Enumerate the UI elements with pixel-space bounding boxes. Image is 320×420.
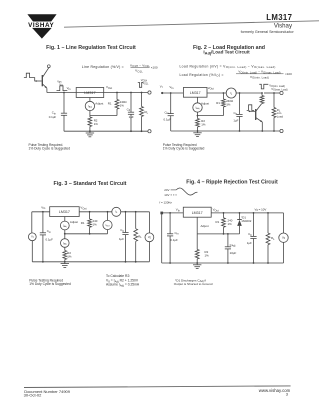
svg-text:1%: 1% <box>201 123 206 127</box>
svg-text:R1: R1 <box>108 101 112 105</box>
svg-text:1%: 1% <box>228 222 233 226</box>
svg-text:×100: ×100 <box>151 66 158 70</box>
svg-text:Fig. 4 – Ripple Rejection Test: Fig. 4 – Ripple Rejection Test Circuit <box>186 179 278 185</box>
svg-text:×100: ×100 <box>285 72 292 76</box>
svg-text:0.1µF: 0.1µF <box>46 238 54 242</box>
svg-text:Cin: Cin <box>47 229 52 234</box>
svg-text:Vishay: Vishay <box>274 23 293 30</box>
svg-text:IAdj: IAdj <box>63 225 67 228</box>
svg-text:Cin: Cin <box>175 231 180 236</box>
svg-text:Load Regulation (mV) = VO(min.: Load Regulation (mV) = VO(min. Load) − V… <box>180 65 276 70</box>
svg-text:RL: RL <box>271 236 275 241</box>
svg-text:VIn: VIn <box>169 85 174 90</box>
svg-text:RL: RL <box>138 234 142 239</box>
svg-text:IAdj: IAdj <box>196 106 200 109</box>
svg-text:VO1L: VO1L <box>135 69 143 74</box>
svg-text:1µF: 1µF <box>247 241 252 245</box>
svg-text:VOut: VOut <box>213 208 219 213</box>
svg-text:CAdj: CAdj <box>230 243 236 248</box>
svg-text:Cin: Cin <box>165 110 170 115</box>
svg-text:R1: R1 <box>215 220 219 224</box>
svg-text:IAdj: IAdj <box>63 242 67 245</box>
svg-text:f = 120Hz: f = 120Hz <box>159 200 172 204</box>
svg-text:1% Duty Cycle is Suggested: 1% Duty Cycle is Suggested <box>29 282 71 286</box>
svg-text:1µF: 1µF <box>119 237 124 241</box>
svg-text:LM317: LM317 <box>84 91 95 95</box>
svg-text:VIn: VIn <box>176 208 181 213</box>
svg-text:C0: C0 <box>120 228 124 233</box>
svg-text:1%: 1% <box>120 104 125 108</box>
svg-text:VO(max. Load): VO(max. Load) <box>271 87 287 92</box>
svg-text:VIn: VIn <box>67 86 72 91</box>
svg-text:Assume IAdj = 0.25mA: Assume IAdj = 0.25mA <box>106 283 140 288</box>
svg-text:VO(min. Load): VO(min. Load) <box>250 75 269 80</box>
svg-text:Load: Load <box>277 114 284 118</box>
svg-text:LM317: LM317 <box>190 91 201 95</box>
svg-text:VI: VI <box>160 84 163 89</box>
svg-text:1%: 1% <box>93 223 98 227</box>
svg-text:Adjust: Adjust <box>95 102 103 106</box>
svg-text:C0: C0 <box>233 111 237 116</box>
svg-text:1% Duty Cycle is Suggested: 1% Duty Cycle is Suggested <box>29 147 71 151</box>
svg-text:formerly General Semiconductor: formerly General Semiconductor <box>241 30 295 34</box>
svg-text:LM317: LM317 <box>192 211 203 215</box>
svg-text:1N4002: 1N4002 <box>241 219 252 223</box>
svg-text:Adjust: Adjust <box>70 220 78 224</box>
svg-text:VISHAY: VISHAY <box>28 22 54 29</box>
svg-text:V0 = 10V: V0 = 10V <box>255 207 267 212</box>
svg-text:LM317: LM317 <box>266 13 292 22</box>
svg-text:Fig. 1 – Line Regulation Test: Fig. 1 – Line Regulation Test Circuit <box>46 45 136 51</box>
svg-text:C0: C0 <box>127 108 131 113</box>
svg-text:R1: R1 <box>81 221 85 225</box>
svg-text:24V: 24V <box>164 188 169 192</box>
svg-text:1µF: 1µF <box>233 118 238 122</box>
svg-text:1% Duty Cycle is Suggested: 1% Duty Cycle is Suggested <box>163 147 205 151</box>
svg-text:IAdj: IAdj <box>88 105 92 108</box>
svg-text:14V: 14V <box>164 193 169 197</box>
svg-text:Adjust: Adjust <box>201 224 209 228</box>
svg-text:0.1µF: 0.1µF <box>164 118 172 122</box>
svg-text:C0: C0 <box>248 232 252 237</box>
svg-text:1%: 1% <box>94 122 99 126</box>
svg-text:To Calculate R2:: To Calculate R2: <box>106 274 130 278</box>
svg-text:1%: 1% <box>205 253 210 257</box>
svg-text:0.1µF: 0.1µF <box>49 115 57 119</box>
svg-text:0.1µF: 0.1µF <box>170 238 178 242</box>
svg-text:1%: 1% <box>226 103 231 107</box>
svg-text:IRef: IRef <box>106 225 110 227</box>
svg-text:Adjust: Adjust <box>201 102 209 106</box>
svg-text:Load Regulation (%/IO) =: Load Regulation (%/IO) = <box>180 73 224 78</box>
svg-text:1%: 1% <box>67 254 72 258</box>
svg-text:Line Regulation (%/V) =: Line Regulation (%/V) = <box>82 65 124 69</box>
svg-text:LM317: LM317 <box>59 210 70 214</box>
svg-text:R1: R1 <box>216 101 220 105</box>
svg-text:30-Oct-02: 30-Oct-02 <box>24 392 43 397</box>
svg-text:RL: RL <box>145 110 149 115</box>
svg-text:1µF: 1µF <box>129 115 134 119</box>
svg-text:10µF: 10µF <box>230 251 237 255</box>
svg-text:VOut: VOut <box>80 206 86 211</box>
svg-text:VOut: VOut <box>106 85 112 90</box>
svg-text:VIn: VIn <box>41 206 46 211</box>
svg-text:Fig. 3 – Standard Test Circuit: Fig. 3 – Standard Test Circuit <box>54 181 127 187</box>
svg-text:VOut: VOut <box>208 86 214 91</box>
svg-text:Output is Shorted to Ground: Output is Shorted to Ground <box>174 282 213 286</box>
